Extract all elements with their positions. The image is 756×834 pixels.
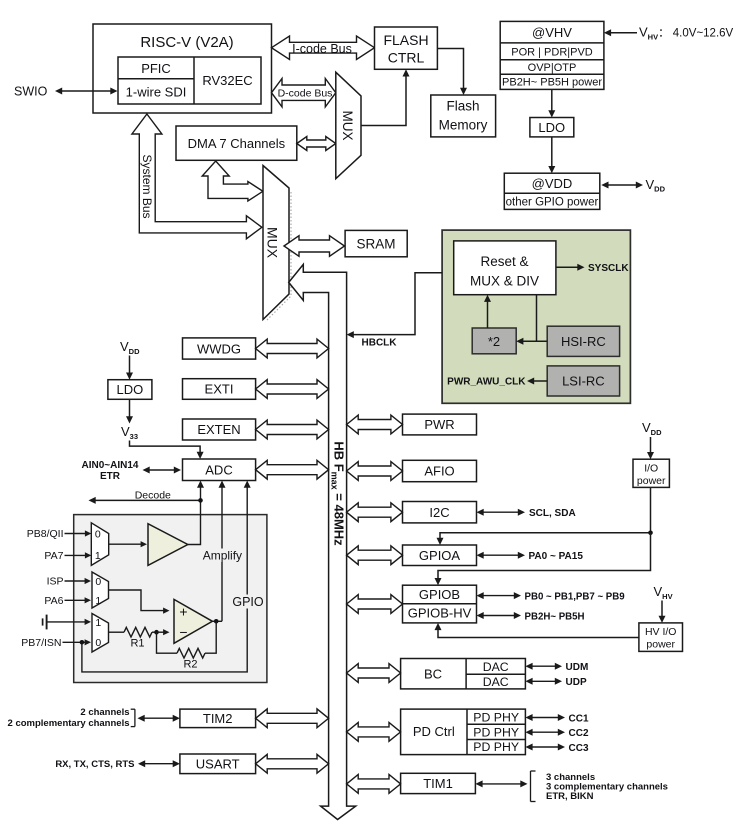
block TIM2 bbox=[180, 709, 256, 728]
wire VHV to HV IO power bbox=[659, 601, 666, 623]
svg-text:UDP: UDP bbox=[566, 677, 587, 688]
mux M2 bbox=[92, 572, 109, 608]
node PB7/ISN bbox=[21, 637, 91, 649]
svg-text:PD PHY: PD PHY bbox=[473, 710, 519, 724]
svg-text:PWR_AWU_CLK: PWR_AWU_CLK bbox=[447, 377, 526, 388]
mux flash MUX bbox=[336, 72, 361, 179]
svg-text:I2C: I2C bbox=[429, 505, 449, 520]
block HSI-RC bbox=[547, 326, 619, 356]
wire FLASH CTRL to Flash Memory bbox=[437, 49, 467, 96]
svg-text:Memory: Memory bbox=[439, 118, 488, 133]
svg-text:FLASH: FLASH bbox=[383, 32, 428, 48]
block BC with DAC bbox=[401, 659, 526, 689]
svg-text:GPIOB-HV: GPIOB-HV bbox=[408, 606, 472, 621]
op-amp buffer A1 bbox=[148, 524, 188, 566]
svg-text:DAC: DAC bbox=[483, 660, 509, 674]
svg-text:LSI-RC: LSI-RC bbox=[562, 374, 605, 389]
bus arrow EXTEN bbox=[256, 420, 329, 439]
svg-text:EXTI: EXTI bbox=[205, 382, 234, 397]
block RISC-V core U1 bbox=[93, 24, 272, 113]
block Flash Memory bbox=[431, 95, 496, 137]
block FLASH CTRL bbox=[375, 27, 438, 69]
svg-text:EXTEN: EXTEN bbox=[197, 422, 240, 437]
block analog front end group bbox=[74, 515, 267, 683]
svg-text:DMA 7 Channels: DMA 7 Channels bbox=[188, 136, 286, 151]
node VHV supply input bbox=[604, 25, 734, 42]
wire SWIO to SDI bbox=[55, 88, 118, 95]
svg-text:GPIOA: GPIOA bbox=[419, 548, 461, 563]
bus arrow GPIOA bbox=[347, 546, 403, 565]
svg-text:−: − bbox=[179, 624, 187, 640]
svg-text:PA0 ~ PA15: PA0 ~ PA15 bbox=[529, 551, 584, 562]
wire M2 to op-amp plus input bbox=[109, 590, 170, 614]
node CC1 bbox=[525, 713, 589, 724]
node ISP bbox=[47, 576, 91, 588]
wire IO power to GPIOA bbox=[437, 487, 653, 545]
svg-text:System Bus: System Bus bbox=[140, 154, 154, 218]
bus arrow TIM1 bbox=[347, 775, 401, 794]
bus arrow ADC bbox=[256, 460, 329, 479]
svg-text:Decode: Decode bbox=[135, 489, 171, 501]
node TIM1 channels bbox=[475, 771, 668, 802]
wire VHV to LDO bbox=[548, 89, 555, 117]
block GPIOB and GPIOB-HV bbox=[403, 585, 477, 623]
svg-text:Reset &: Reset & bbox=[480, 254, 528, 269]
wire Reset box to multiplier line bbox=[536, 295, 538, 342]
block AFIO bbox=[403, 460, 477, 481]
block PWR bbox=[403, 414, 477, 435]
svg-text:Flash: Flash bbox=[446, 99, 479, 114]
node UDM bbox=[525, 662, 588, 673]
node decode junction bbox=[198, 498, 203, 503]
bus arrow I2C bbox=[347, 503, 403, 522]
node AIN0-AIN14 ETR bbox=[82, 460, 139, 482]
svg-text:MUX: MUX bbox=[265, 227, 281, 259]
svg-text:other GPIO power: other GPIO power bbox=[506, 197, 599, 209]
svg-text:PB2H~ PB5H power: PB2H~ PB5H power bbox=[502, 77, 602, 89]
mux M1 bbox=[91, 523, 108, 566]
svg-text:PD Ctrl: PD Ctrl bbox=[413, 724, 455, 739]
svg-text:RV32EC: RV32EC bbox=[202, 73, 252, 88]
svg-text:ADC: ADC bbox=[205, 463, 232, 478]
block EXTEN bbox=[183, 419, 256, 440]
wire Decode bbox=[89, 489, 201, 504]
block SRAM bbox=[345, 230, 407, 256]
bus arrow PD Ctrl bbox=[347, 723, 401, 742]
wire HSI-RC to x2 bbox=[516, 338, 547, 345]
block DMA bbox=[176, 126, 297, 160]
svg-text:OVP|OTP: OVP|OTP bbox=[528, 62, 577, 74]
svg-text:AIN0~AIN14: AIN0~AIN14 bbox=[82, 460, 139, 471]
block VDD power bbox=[504, 173, 600, 209]
svg-text:CTRL: CTRL bbox=[388, 50, 425, 66]
svg-text:*2: *2 bbox=[488, 334, 500, 349]
svg-text:SYSCLK: SYSCLK bbox=[588, 263, 629, 274]
wire IO power to GPIOB bbox=[435, 533, 651, 585]
wire HV IO power to GPIOB-HV bbox=[435, 623, 639, 638]
node R1 junction bbox=[154, 629, 169, 635]
bus arrow TIM2 bbox=[256, 709, 329, 728]
svg-text:CC2: CC2 bbox=[569, 728, 589, 739]
block IO power bbox=[633, 459, 669, 487]
block TIM1 bbox=[401, 773, 476, 793]
svg-text:PD PHY: PD PHY bbox=[473, 725, 519, 739]
node PA0-PA15 bbox=[477, 551, 584, 562]
svg-text:PB7/ISN: PB7/ISN bbox=[21, 637, 61, 649]
ground analog reference bbox=[43, 615, 91, 630]
bus arrow DMA to MUX bbox=[202, 161, 263, 201]
svg-text:RISC-V (V2A): RISC-V (V2A) bbox=[140, 34, 233, 51]
svg-text:DAC: DAC bbox=[483, 675, 509, 689]
svg-text:PB2H~ PB5H: PB2H~ PB5H bbox=[525, 611, 585, 622]
bus arrow DMA to flash MUX bbox=[297, 137, 336, 151]
resistor R2 feedback bbox=[157, 621, 217, 670]
block LSI-RC bbox=[547, 366, 619, 396]
svg-text:0: 0 bbox=[95, 529, 101, 541]
svg-text:ISP: ISP bbox=[47, 576, 64, 588]
svg-text:@VHV: @VHV bbox=[532, 25, 572, 40]
svg-text:PB8/QII: PB8/QII bbox=[27, 528, 64, 540]
svg-text:MUX: MUX bbox=[340, 111, 355, 141]
node TIM2 channels bbox=[8, 707, 130, 729]
mux main system MUX bbox=[263, 166, 291, 322]
svg-text:TIM1: TIM1 bbox=[423, 776, 453, 791]
svg-text:CC1: CC1 bbox=[569, 713, 589, 724]
block x2 multiplier bbox=[472, 328, 516, 354]
bus arrow I-code Bus bbox=[272, 36, 375, 59]
svg-text:ETR: ETR bbox=[100, 471, 121, 482]
bus arrow WWDG bbox=[256, 339, 329, 358]
block PD Ctrl with PD PHY bbox=[401, 709, 526, 755]
svg-text:SWIO: SWIO bbox=[14, 85, 48, 99]
svg-text:GPIO: GPIO bbox=[232, 595, 264, 609]
op-amp A2 bbox=[174, 599, 212, 643]
svg-text:1: 1 bbox=[95, 595, 101, 607]
bus arrow HB main bus bbox=[289, 264, 356, 819]
block LDO high voltage bbox=[530, 118, 574, 137]
svg-text:0: 0 bbox=[95, 576, 101, 588]
wire M1 to buffer bbox=[109, 541, 147, 547]
node USART pins bbox=[55, 759, 180, 770]
svg-text:AFIO: AFIO bbox=[424, 464, 454, 479]
svg-text:power: power bbox=[637, 475, 666, 487]
bus arrow EXTI bbox=[256, 380, 329, 399]
node PB8/QII bbox=[27, 528, 92, 540]
svg-text:HV I/O: HV I/O bbox=[645, 626, 677, 638]
svg-text:Amplify: Amplify bbox=[203, 549, 242, 563]
svg-text:RX, TX, CTS, RTS: RX, TX, CTS, RTS bbox=[55, 759, 134, 770]
block PFIC / 1-wire SDI / RV32EC inner box bbox=[118, 57, 261, 104]
svg-text:PFIC: PFIC bbox=[141, 61, 171, 76]
mux M3 bbox=[92, 614, 109, 653]
svg-text:R1: R1 bbox=[130, 638, 144, 650]
block I2C bbox=[403, 502, 477, 523]
wire LDO to VDD bbox=[548, 137, 555, 173]
svg-text:I-code Bus: I-code Bus bbox=[292, 42, 352, 56]
svg-text:D-code Bus: D-code Bus bbox=[278, 87, 333, 99]
svg-text:2 complementary channels: 2 complementary channels bbox=[8, 718, 130, 729]
node CC2 bbox=[525, 728, 589, 739]
block LDO low voltage bbox=[108, 380, 152, 400]
resistor R1 bbox=[109, 627, 157, 649]
svg-text:MUX & DIV: MUX & DIV bbox=[470, 274, 539, 289]
bus arrow System Bus bbox=[132, 114, 262, 239]
svg-text:ETR, BIKN: ETR, BIKN bbox=[546, 791, 594, 802]
bus arrow BC bbox=[347, 664, 401, 683]
svg-text:1: 1 bbox=[95, 617, 101, 629]
svg-text:R2: R2 bbox=[183, 659, 197, 671]
block Reset MUX DIV bbox=[454, 241, 556, 295]
wire buffer to ADC bbox=[188, 481, 204, 545]
svg-text:I/O: I/O bbox=[644, 463, 658, 475]
svg-text:UDM: UDM bbox=[566, 662, 589, 673]
svg-text:GPIOB: GPIOB bbox=[419, 587, 460, 602]
svg-text:@VDD: @VDD bbox=[532, 176, 573, 191]
svg-text:PA6: PA6 bbox=[44, 595, 63, 607]
wire analog inputs to ADC bbox=[143, 467, 182, 474]
svg-text:USART: USART bbox=[196, 756, 240, 771]
svg-text:SCL, SDA: SCL, SDA bbox=[529, 508, 576, 519]
block EXTI bbox=[183, 379, 256, 400]
svg-text:HBCLK: HBCLK bbox=[362, 338, 398, 349]
node PA6 bbox=[44, 595, 91, 607]
block WWDG bbox=[183, 338, 256, 359]
wire TIM2 bracket bbox=[131, 709, 180, 726]
svg-text:BC: BC bbox=[424, 666, 442, 681]
svg-text:LDO: LDO bbox=[117, 382, 144, 397]
svg-text:LDO: LDO bbox=[538, 120, 565, 135]
wire x2 to Reset box bbox=[484, 295, 491, 328]
svg-text:power: power bbox=[646, 639, 675, 651]
svg-text:1-wire SDI: 1-wire SDI bbox=[126, 85, 187, 100]
bus arrow PWR bbox=[347, 415, 403, 434]
bus arrow MUX to SRAM bbox=[284, 236, 345, 257]
wire flash MUX to FLASH CTRL bbox=[361, 69, 410, 125]
bus arrow GPIOB bbox=[347, 595, 403, 614]
wire A2 output bbox=[212, 619, 222, 624]
node PB2H-PB5H bbox=[477, 611, 585, 622]
svg-text:SRAM: SRAM bbox=[356, 237, 395, 252]
svg-text:PB0 ~ PB1,PB7 ~ PB9: PB0 ~ PB1,PB7 ~ PB9 bbox=[525, 591, 626, 602]
svg-text:+: + bbox=[179, 603, 187, 619]
bus arrow D-code Bus bbox=[272, 79, 336, 107]
wire GPIO feedback bbox=[82, 481, 264, 672]
block USART bbox=[180, 754, 256, 774]
svg-text:CC3: CC3 bbox=[569, 743, 589, 754]
wire Amplify to ADC bbox=[203, 481, 242, 622]
block GPIOA bbox=[403, 545, 477, 566]
wire VDD to IO power bbox=[647, 437, 654, 459]
svg-text:2 channels: 2 channels bbox=[80, 707, 129, 718]
node PB0-PB9 bbox=[477, 591, 626, 602]
wire HBCLK bbox=[347, 273, 443, 349]
block VHV power bbox=[500, 21, 604, 89]
node VDD supply right bbox=[601, 177, 665, 194]
node UDP bbox=[525, 677, 587, 688]
node SCL SDA bbox=[477, 508, 576, 519]
svg-text:PD PHY: PD PHY bbox=[473, 740, 519, 754]
wire LDO2 to V33 bbox=[126, 399, 133, 423]
block ADC bbox=[183, 459, 256, 481]
node SYSCLK bbox=[556, 263, 629, 274]
svg-text:HSI-RC: HSI-RC bbox=[561, 334, 606, 349]
node PWR_AWU_CLK bbox=[447, 377, 547, 388]
wire V33 to ADC bbox=[130, 441, 204, 460]
node PA7 bbox=[44, 550, 91, 562]
svg-text:TIM2: TIM2 bbox=[203, 711, 233, 726]
svg-text:1: 1 bbox=[95, 550, 101, 562]
bus arrow AFIO bbox=[347, 462, 403, 481]
svg-text:HB Fmax = 48MHz: HB Fmax = 48MHz bbox=[330, 441, 347, 546]
bus arrow USART bbox=[256, 754, 329, 773]
svg-text:PA7: PA7 bbox=[44, 550, 63, 562]
block HV IO power bbox=[639, 623, 683, 652]
svg-text:PWR: PWR bbox=[424, 417, 454, 432]
svg-text:POR | PDR|PVD: POR | PDR|PVD bbox=[511, 47, 593, 59]
svg-text:0: 0 bbox=[95, 637, 101, 649]
wire VDD to LDO2 bbox=[126, 356, 133, 380]
block clock unit group bbox=[442, 230, 630, 403]
svg-text:WWDG: WWDG bbox=[197, 341, 241, 356]
node CC3 bbox=[525, 743, 589, 754]
